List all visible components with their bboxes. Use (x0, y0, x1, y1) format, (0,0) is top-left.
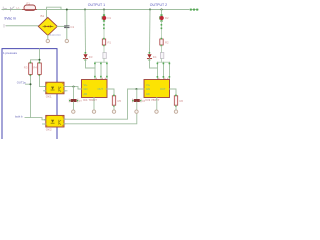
wire IC3 out (170, 89, 177, 96)
svg-text:OK1: OK1 (46, 94, 52, 98)
wire (103, 10, 105, 16)
svg-text:R3: R3 (24, 66, 28, 70)
optocoupler OK1 (46, 82, 64, 94)
svg-text:1A: 1A (16, 6, 20, 10)
wire R4 top (39, 49, 41, 62)
svg-text:OK2: OK2 (46, 128, 52, 132)
IC3 top pins (157, 62, 171, 79)
rail end pads (190, 9, 192, 11)
port X1-1 (3, 7, 6, 10)
wire (73, 102, 75, 110)
svg-text:both b: both b (15, 115, 23, 119)
switch S1 (11, 7, 15, 11)
fuse F1 (24, 5, 36, 11)
resistor R8 (134, 99, 140, 102)
opto2 pin stubs (43, 123, 46, 125)
wire bridge top bypass (47, 7, 62, 17)
ground GND4 (112, 110, 115, 113)
wire main top rail (2, 9, 198, 11)
diode D3 (83, 54, 87, 58)
svg-text:OUTPUT 1: OUTPUT 1 (88, 3, 105, 7)
wire AC2 to bridge (7, 25, 39, 27)
wire both b (25, 118, 46, 120)
svg-text:VI+: VI+ (84, 83, 88, 87)
svg-text:IC1 7805T: IC1 7805T (83, 98, 97, 102)
wire IC1 gnd (93, 98, 95, 110)
svg-text:OUT: OUT (160, 87, 166, 91)
svg-text:R1: R1 (108, 41, 112, 45)
svg-text:GN: GN (146, 87, 150, 91)
frame group box (2, 49, 57, 139)
optocoupler OK2 (46, 115, 64, 127)
wire IC3 gnd (156, 98, 158, 110)
svg-text:AD: AD (146, 92, 150, 96)
junction opto1 collector node (73, 86, 75, 88)
svg-text:D1: D1 (108, 16, 112, 20)
resistor R5 (112, 96, 115, 105)
LED column output 1 (102, 10, 112, 47)
ground GND2 (65, 39, 68, 42)
svg-text:R2: R2 (165, 41, 169, 45)
ground GND8 (135, 110, 138, 113)
ground GND3 (92, 110, 95, 113)
wire (103, 22, 105, 39)
wire opto1 collector to IC1 (64, 87, 82, 89)
resistor R2 (160, 39, 163, 45)
svg-text:R6: R6 (180, 99, 184, 103)
svg-text:F1: F1 (27, 2, 31, 6)
svg-text:OUTPUT 2: OUTPUT 2 (150, 3, 167, 7)
diode column 1 (83, 10, 95, 69)
ground GND7 (72, 110, 75, 113)
ground GND1 (46, 39, 49, 42)
wire (136, 102, 138, 110)
svg-text:1 pressure: 1 pressure (3, 51, 18, 55)
wire OUT1a (26, 83, 31, 85)
junction R3/R4 tops (39, 59, 41, 61)
svg-text:9Vac in: 9Vac in (4, 16, 16, 20)
svg-text:D4: D4 (153, 55, 157, 59)
junction IC3 input node (136, 88, 138, 90)
svg-text:R4: R4 (33, 66, 37, 70)
svg-text:B1: B1 (41, 14, 45, 18)
wire R3 top link (31, 60, 40, 62)
svg-text:IC3 7805T: IC3 7805T (146, 98, 160, 102)
jumper J2 (160, 53, 163, 59)
regulator IC3 (144, 80, 170, 98)
IC1 pin numbers (96, 78, 106, 79)
IC3 pin numbers (158, 78, 168, 79)
diode column 2 (147, 10, 157, 69)
wire opto2 collector to IC3 (64, 89, 144, 119)
wire sense (73, 87, 75, 99)
svg-text:D3: D3 (89, 55, 93, 59)
wire sense 2 (136, 89, 138, 99)
svg-text:R5: R5 (118, 99, 122, 103)
ground GND6 (174, 110, 177, 113)
ground GND5 (155, 110, 158, 113)
resistor R3 (24, 62, 33, 76)
opto1 pin stubs (44, 90, 68, 92)
svg-text:OUT1a: OUT1a (17, 80, 26, 84)
svg-text:B40C800: B40C800 (50, 33, 62, 37)
junction dots on rail (66, 9, 68, 11)
LED column output 2 (159, 10, 169, 47)
wire (175, 106, 177, 110)
wire R3 down to opto2 (30, 76, 32, 117)
junction OUT1a node (30, 83, 32, 85)
diode D4 (147, 54, 151, 58)
resistor R6 (174, 96, 177, 105)
IC1 top pins (94, 62, 108, 79)
resistor R7 (71, 99, 77, 102)
opto2 pin pads (45, 119, 66, 124)
bridge rectifier B1 (38, 17, 57, 35)
opto1 pin pads (45, 87, 66, 91)
svg-text:C1: C1 (70, 25, 74, 29)
wire R4 to opto1 (40, 76, 46, 86)
junction node C1/rail (84, 9, 86, 11)
wire opto2 emitter (64, 111, 137, 123)
svg-text:D2: D2 (165, 16, 169, 20)
jumper J1 (103, 53, 106, 59)
port X1-2 (4, 24, 7, 27)
LED D2 (160, 14, 162, 16)
svg-text:VI+: VI+ (146, 83, 150, 87)
wire bridge bottom to ground (47, 35, 49, 39)
wire IC1 out (106, 89, 114, 96)
svg-text:GN: GN (84, 87, 88, 91)
wire (113, 106, 115, 110)
resistor R4 (33, 62, 41, 76)
wire bridge right to cap node (57, 25, 67, 27)
capacitor C1 (65, 10, 69, 40)
svg-text:AD: AD (84, 92, 88, 96)
LED D1 (103, 14, 105, 16)
resistor R1 (102, 39, 105, 45)
svg-text:OUT: OUT (98, 87, 104, 91)
regulator IC1 (82, 80, 108, 98)
